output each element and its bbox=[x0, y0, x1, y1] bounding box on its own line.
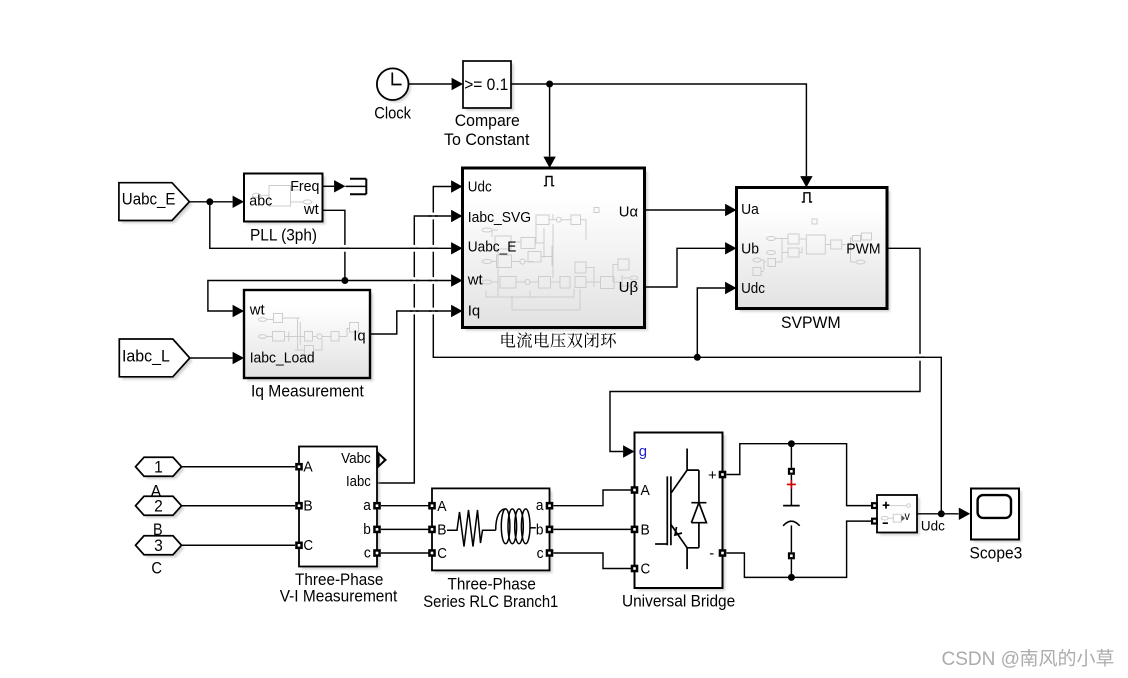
svg-text:B: B bbox=[303, 498, 312, 515]
wire Iabc_L to Iq measurement bbox=[190, 352, 244, 364]
svg-text:wt: wt bbox=[303, 201, 320, 218]
three-phase V-I measurement block bbox=[280, 447, 398, 606]
svg-text:Three-Phase: Three-Phase bbox=[448, 574, 536, 593]
svg-text:Udc: Udc bbox=[741, 280, 765, 297]
svg-text:Uabc_E: Uabc_E bbox=[468, 239, 517, 256]
port squares bridge inputs bbox=[631, 486, 639, 572]
svg-text:Uβ: Uβ bbox=[619, 279, 639, 296]
svg-text:Iq Measurement: Iq Measurement bbox=[251, 382, 364, 401]
port squares V-I inputs bbox=[295, 463, 303, 549]
wire crossing gaps bbox=[340, 213, 924, 361]
svg-text:Universal Bridge: Universal Bridge bbox=[622, 592, 735, 611]
wire Freq to terminator bbox=[323, 180, 367, 192]
svg-text:Udc: Udc bbox=[921, 518, 945, 533]
input tag Uabc_E bbox=[119, 183, 192, 224]
svg-text:Vabc: Vabc bbox=[341, 450, 371, 467]
wire port 1 to V-I measurement bbox=[182, 466, 296, 468]
wire a to bridge A bbox=[554, 490, 632, 506]
wire c to C bbox=[381, 552, 429, 554]
svg-text:Series RLC Branch1: Series RLC Branch1 bbox=[423, 592, 558, 611]
svg-text:Freq: Freq bbox=[290, 178, 319, 195]
Iq Measurement block bbox=[244, 290, 373, 401]
svg-text:C: C bbox=[303, 537, 313, 554]
node Uabc_E junction bbox=[206, 198, 213, 205]
wire Udc feedback bbox=[433, 180, 941, 514]
compare to constant block bbox=[444, 61, 530, 149]
resistor bbox=[447, 510, 496, 547]
svg-text:g: g bbox=[639, 443, 647, 460]
wire clock to compare bbox=[409, 78, 464, 90]
universal bridge block bbox=[622, 433, 735, 611]
wire PLL wt output bbox=[323, 210, 345, 280]
svg-text:Udc: Udc bbox=[468, 179, 492, 196]
wire wt to Iq measurement bbox=[208, 281, 345, 318]
input port 2 (B) bbox=[136, 496, 185, 539]
svg-text:SVPWM: SVPWM bbox=[781, 313, 841, 332]
wire Udc measurement to scope bbox=[917, 508, 970, 520]
svg-text:1: 1 bbox=[154, 458, 163, 477]
svg-text:Iabc_L: Iabc_L bbox=[122, 346, 170, 365]
svg-text:C: C bbox=[151, 558, 162, 577]
wire Ualpha to Ua bbox=[645, 204, 737, 216]
svg-text:C: C bbox=[437, 545, 447, 562]
capacitor C (dc link) bbox=[783, 444, 800, 578]
svg-text:Iabc: Iabc bbox=[346, 473, 371, 490]
svg-text:wt: wt bbox=[249, 302, 266, 319]
node compare junction bbox=[546, 81, 553, 88]
wire PWM to bridge gate bbox=[610, 248, 920, 457]
PLL (3ph) block bbox=[244, 174, 325, 245]
SVPWM block bbox=[737, 188, 891, 332]
svg-text:A: A bbox=[437, 498, 446, 515]
IGBT and diode icon bbox=[655, 449, 706, 570]
svg-text:v: v bbox=[905, 511, 911, 523]
svg-text:-: - bbox=[709, 545, 714, 562]
svg-text:V-I Measurement: V-I Measurement bbox=[280, 586, 398, 605]
terminator symbol bbox=[350, 179, 366, 195]
input port 3 (C) bbox=[136, 536, 185, 578]
svg-text:C: C bbox=[641, 561, 651, 578]
wire Iabc to Iabc_SVG bbox=[377, 210, 463, 483]
svg-text:B: B bbox=[437, 522, 446, 539]
svg-text:c: c bbox=[364, 545, 371, 562]
svg-text:b: b bbox=[363, 521, 371, 538]
wire Ubeta to Ub bbox=[645, 242, 737, 287]
port squares RLC inputs bbox=[428, 502, 436, 557]
wire Uabc_E to loop block bbox=[210, 202, 463, 255]
wire wt to loop block bbox=[345, 274, 463, 286]
svg-text:Iq: Iq bbox=[468, 302, 480, 319]
clock block bbox=[374, 68, 411, 122]
input port 1 (A) bbox=[136, 457, 185, 500]
svg-text:PWM: PWM bbox=[846, 241, 880, 258]
svg-text:CSDN @: CSDN @ bbox=[942, 649, 1020, 670]
wire c to bridge C bbox=[554, 553, 632, 569]
wire compare output bbox=[511, 83, 550, 85]
svg-text:abc: abc bbox=[249, 192, 272, 209]
port squares voltage measurement bbox=[871, 502, 878, 524]
voltage measurement block bbox=[877, 495, 920, 535]
svg-text:Uα: Uα bbox=[619, 203, 639, 220]
node cap top junction bbox=[788, 440, 795, 447]
node cap bottom junction bbox=[788, 574, 795, 581]
svg-text:A: A bbox=[303, 459, 312, 476]
wire to trigger of current-voltage loop bbox=[543, 84, 555, 168]
svg-text:Iq: Iq bbox=[353, 328, 365, 345]
svg-text:2: 2 bbox=[154, 497, 163, 516]
watermark CSDN bbox=[942, 649, 1114, 670]
svg-text:Clock: Clock bbox=[374, 104, 411, 123]
scope3 block bbox=[970, 489, 1023, 563]
port squares bridge outputs bbox=[719, 471, 727, 557]
svg-text:Scope3: Scope3 bbox=[970, 544, 1023, 563]
wire to trigger of SVPWM bbox=[550, 84, 813, 188]
svg-text:Compare: Compare bbox=[455, 111, 520, 130]
svg-text:a: a bbox=[363, 497, 371, 514]
svg-text:>= 0.1: >= 0.1 bbox=[464, 75, 508, 94]
node scope junction bbox=[938, 510, 945, 517]
wire Iq to loop block bbox=[370, 305, 463, 334]
label current voltage double closed loop bbox=[501, 332, 615, 348]
svg-text:PLL (3ph): PLL (3ph) bbox=[250, 225, 317, 244]
red plus polarity mark bbox=[787, 480, 796, 489]
wire Uabc_E to PLL bbox=[189, 196, 244, 208]
svg-text:+: + bbox=[708, 467, 717, 484]
Vabc unconnected output arrow bbox=[377, 451, 387, 469]
node wt junction bbox=[341, 277, 348, 284]
input tag Iabc_L bbox=[119, 339, 192, 380]
svg-text:3: 3 bbox=[154, 536, 163, 555]
inductor bbox=[496, 509, 506, 530]
wire port 2 to V-I measurement bbox=[182, 505, 296, 507]
svg-text:Iabc_Load: Iabc_Load bbox=[250, 350, 315, 367]
svg-text:To Constant: To Constant bbox=[444, 130, 530, 149]
svg-text:Uabc_E: Uabc_E bbox=[122, 190, 176, 209]
wire bridge minus to voltage measurement bbox=[727, 521, 872, 577]
svg-text:b: b bbox=[536, 521, 544, 538]
wire a to A bbox=[381, 505, 429, 507]
svg-text:Ua: Ua bbox=[741, 201, 759, 218]
svg-text:a: a bbox=[536, 497, 544, 514]
wire b to B bbox=[381, 528, 429, 530]
svg-text:c: c bbox=[537, 545, 544, 562]
three-phase series RLC branch block bbox=[423, 488, 558, 611]
label Udc bbox=[921, 518, 945, 533]
wire bridge plus to voltage measurement bbox=[727, 444, 872, 506]
svg-text:Ub: Ub bbox=[741, 241, 759, 258]
wire b to bridge B bbox=[554, 528, 632, 530]
svg-text:B: B bbox=[641, 522, 650, 539]
current voltage double closed loop block bbox=[463, 168, 648, 331]
wire Udc to SVPWM bbox=[697, 282, 736, 358]
svg-text:Iabc_SVG: Iabc_SVG bbox=[468, 209, 531, 226]
svg-text:A: A bbox=[641, 482, 650, 499]
wire port 3 to V-I measurement bbox=[182, 544, 296, 546]
port squares V-I outputs bbox=[373, 502, 381, 557]
port squares RLC outputs bbox=[546, 502, 554, 557]
node Udc junction bbox=[694, 354, 701, 361]
svg-text:wt: wt bbox=[467, 271, 484, 288]
